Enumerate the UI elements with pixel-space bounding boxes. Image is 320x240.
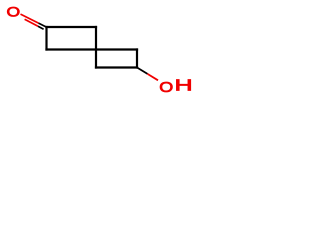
svg-text:H: H xyxy=(175,77,193,94)
svg-text:O: O xyxy=(159,78,173,95)
svg-text:O: O xyxy=(7,5,21,20)
